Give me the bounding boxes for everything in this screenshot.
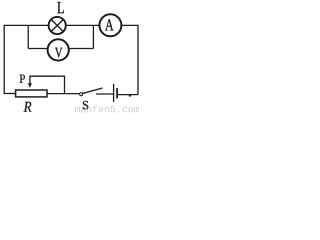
battery cell: long thin plate: [113, 84, 115, 102]
ammeter letter A: [105, 19, 114, 30]
voltmeter branch: right vertical up to node: [92, 25, 94, 48]
voltmeter V1 circle: [48, 39, 69, 60]
ammeter A1 circle: [99, 14, 121, 36]
battery cell: short thick plate: [116, 88, 118, 98]
slider wire: horizontal from P: [29, 75, 65, 77]
junction blob on bottom-right wire: [129, 95, 131, 97]
voltmeter branch: left horizontal: [28, 48, 48, 50]
watermark manfen5.com: [75, 105, 139, 112]
voltmeter branch: left vertical drop: [27, 25, 29, 48]
label S: [83, 101, 88, 109]
switch S: blade: [83, 88, 103, 93]
rheostat R: resistor box: [16, 90, 47, 97]
slider wire: vertical down to bottom wire: [64, 76, 66, 93]
label P: [20, 75, 25, 83]
wire: bottom-left to rheostat: [4, 93, 16, 95]
slider arrow P: shaft: [29, 76, 31, 84]
wire: ammeter to right edge: [121, 24, 138, 26]
wire: rheostat to switch: [47, 93, 80, 95]
lamp L symbol: [49, 17, 66, 34]
voltmeter letter V: [55, 48, 62, 58]
label R: [24, 102, 32, 112]
wire: bottom-right to battery: [118, 94, 138, 96]
wire: left vertical: [3, 25, 5, 94]
wire: top-left horizontal: [4, 24, 48, 26]
wire: right vertical: [137, 25, 139, 95]
switch S: pivot circle: [80, 93, 83, 96]
wire: lamp to ammeter: [66, 24, 100, 26]
label L: [57, 2, 64, 13]
voltmeter branch: right horizontal: [69, 48, 93, 50]
wire: battery to switch contact: [96, 93, 113, 95]
slider arrow P: head: [28, 83, 32, 87]
